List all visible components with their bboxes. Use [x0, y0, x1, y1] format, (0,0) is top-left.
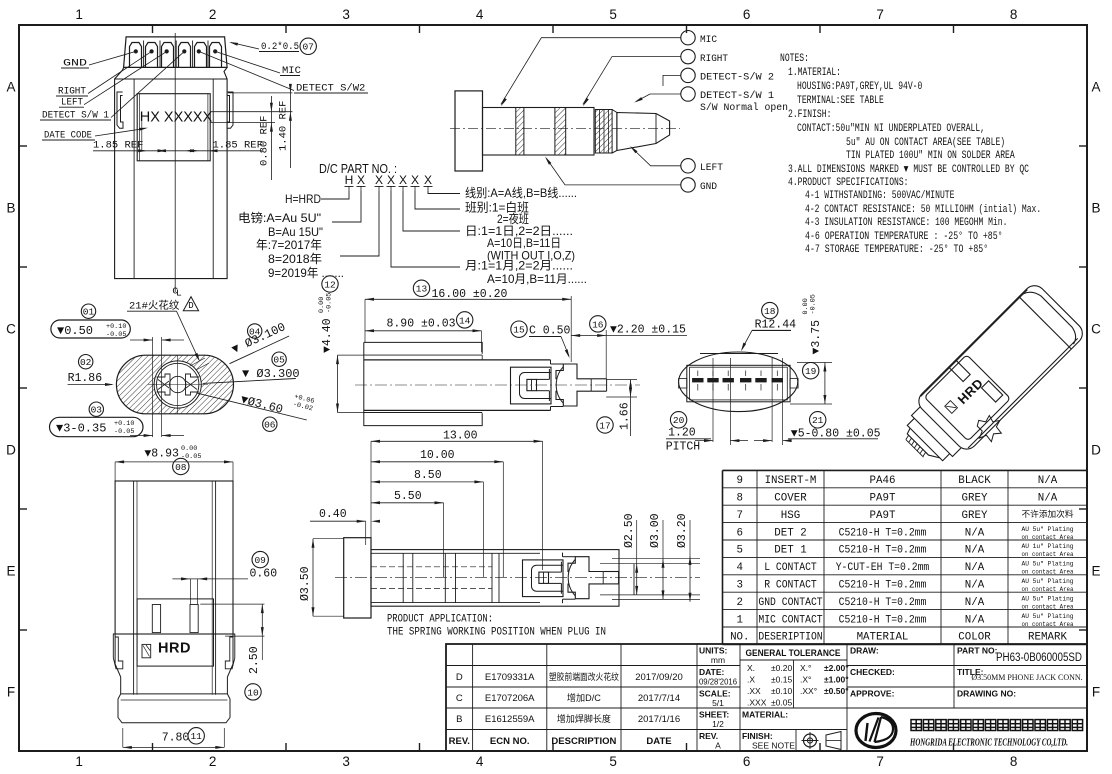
svg-text:20: 20 [673, 415, 685, 426]
3d view small square mark [945, 401, 958, 414]
spring jaw arc [556, 367, 563, 404]
tolerance box left border [739, 644, 741, 751]
svg-text:PRODUCT APPLICATION:: PRODUCT APPLICATION: [387, 614, 493, 626]
svg-text:2017/1/16: 2017/1/16 [638, 714, 680, 725]
spring outer clamp box [511, 367, 552, 404]
svg-text:1.20: 1.20 [668, 427, 696, 440]
spring cross bar [568, 557, 604, 572]
svg-text:B: B [456, 714, 462, 725]
svg-text:A=10月,B=11月......: A=10月,B=11月...... [487, 272, 587, 286]
dim dia 2.50 [636, 564, 638, 595]
svg-text:10: 10 [247, 687, 259, 698]
balloon 11 [188, 728, 204, 744]
svg-text:1: 1 [75, 754, 83, 769]
leader X3 to month label [391, 191, 460, 267]
oval crosshair lines [177, 355, 179, 414]
top view centerline [174, 33, 176, 292]
svg-text:.X°: .X° [800, 675, 811, 685]
svg-text:TERMINAL:SEE TABLE: TERMINAL:SEE TABLE [797, 95, 884, 107]
svg-text:C: C [456, 693, 463, 704]
svg-text:+0.10: +0.10 [106, 323, 126, 331]
svg-text:0.00: 0.00 [181, 445, 197, 453]
svg-text:1.85 REF: 1.85 REF [93, 140, 143, 152]
svg-text:HX XXXXX: HX XXXXX [140, 110, 213, 126]
svg-text:E: E [1091, 564, 1100, 579]
svg-text:X: X [357, 173, 365, 187]
ellipse side notches [679, 379, 687, 389]
svg-text:8: 8 [1010, 7, 1018, 22]
leader DETECT S/W 1 [111, 51, 184, 117]
3d view body slab [895, 281, 1087, 473]
svg-text:2017/09/20: 2017/09/20 [635, 672, 683, 683]
general tolerance box [740, 659, 847, 661]
svg-text:A: A [715, 741, 721, 751]
svg-text:R CONTACT: R CONTACT [764, 580, 817, 592]
dimension 1.66 vertical line [630, 380, 632, 437]
svg-text:4-3 INSULATION RESISTANCE: 100: 4-3 INSULATION RESISTANCE: 100 MEGOHM Mi… [805, 217, 1007, 229]
svg-text:5/1: 5/1 [712, 698, 724, 708]
svg-text:±1.00°: ±1.00° [824, 675, 849, 685]
svg-text:on contact Area: on contact Area [1022, 551, 1074, 558]
svg-text:电镑:A=Au 5U": 电镑:A=Au 5U" [238, 210, 321, 225]
svg-text:±0.10: ±0.10 [771, 686, 792, 696]
front view dim 0.60 line and arrows [172, 578, 248, 580]
svg-text:X: X [424, 173, 432, 187]
spring cross bar [556, 364, 592, 379]
svg-text:on contact Area: on contact Area [1022, 569, 1074, 576]
svg-text:NO.: NO. [730, 632, 749, 644]
svg-text:REV.: REV. [699, 731, 718, 741]
dimension 2.20 line [571, 335, 687, 337]
svg-text:N/A: N/A [965, 545, 985, 557]
svg-text:FINISH:: FINISH: [742, 731, 773, 741]
svg-text:AU 5u" Plating: AU 5u" Plating [1022, 595, 1074, 602]
svg-text:3: 3 [737, 580, 743, 592]
dimension 1.40 REF vertical [289, 85, 291, 168]
svg-text:Y-CUT-EH T=0.2mm: Y-CUT-EH T=0.2mm [836, 562, 930, 574]
label dia 3.100 slanted with leader [230, 336, 290, 364]
svg-text:09/28'2016: 09/28'2016 [699, 677, 737, 687]
dim dia 3.20 [689, 556, 691, 602]
svg-text:F: F [1092, 685, 1100, 700]
svg-text:DRAW:: DRAW: [850, 646, 879, 656]
svg-text:8.90 ±0.03: 8.90 ±0.03 [387, 318, 456, 331]
svg-text:C: C [6, 322, 16, 337]
oval hatch detail dashes inside circle [190, 358, 205, 366]
balloon 18 [762, 302, 778, 318]
svg-text:PH63-0B060005SD: PH63-0B060005SD [996, 652, 1082, 664]
svg-text:13: 13 [416, 284, 428, 295]
callout circle RIGHT [681, 49, 695, 63]
svg-text:UNITS:: UNITS: [699, 646, 728, 656]
svg-text:Ø2.50: Ø2.50 [623, 513, 636, 548]
svg-text:D: D [188, 301, 193, 311]
svg-text:12: 12 [324, 279, 336, 290]
leader H to H=HRD [321, 191, 349, 199]
svg-text:DATE: DATE [646, 736, 671, 747]
bottom view dia ext lines [600, 563, 700, 565]
leader 0.2*0.5 arrow to pin block corner [231, 43, 259, 50]
svg-text:09: 09 [254, 555, 266, 566]
svg-text:1: 1 [75, 7, 83, 22]
dimension 8.90 line [365, 330, 482, 332]
oval left contact part [157, 374, 171, 395]
svg-text:1: 1 [737, 614, 743, 626]
svg-text:AU 5u" Plating: AU 5u" Plating [1022, 526, 1074, 533]
svg-text:DET 2: DET 2 [774, 527, 806, 539]
oval inner circle 2 [157, 363, 199, 405]
svg-text:-0.05: -0.05 [325, 293, 333, 313]
balloon 03 [89, 402, 103, 416]
svg-text:15: 15 [513, 325, 525, 336]
svg-text:06: 06 [264, 420, 276, 431]
balloon 16 [590, 316, 606, 332]
svg-text:4.PRODUCT SPECIFICATIONS:: 4.PRODUCT SPECIFICATIONS: [788, 177, 909, 189]
svg-text:X: X [375, 173, 383, 187]
svg-text:11: 11 [190, 731, 202, 742]
svg-text:INSERT-M: INSERT-M [765, 475, 817, 487]
plug cone tip [617, 113, 670, 151]
svg-text:9: 9 [737, 475, 743, 487]
leader from spark label to oval hatch [177, 311, 200, 360]
balloon 13 [413, 280, 429, 296]
top view pin block separator lines [143, 41, 145, 68]
svg-text:16: 16 [592, 319, 604, 330]
svg-text:19: 19 [805, 366, 817, 377]
dimension 1.20 arrows [704, 439, 713, 442]
front view dim 2.50 ext lines [200, 603, 264, 605]
svg-text:GENERAL TOLERANCE: GENERAL TOLERANCE [746, 648, 841, 658]
svg-text:F: F [7, 685, 15, 700]
svg-text:5.50: 5.50 [394, 490, 422, 503]
svg-text:07: 07 [302, 42, 313, 53]
svg-text:GND: GND [700, 181, 717, 193]
svg-text:C 0.50: C 0.50 [529, 325, 571, 338]
dimension 0.80 arrows [763, 439, 772, 442]
extension lines for HX box dims [141, 122, 143, 151]
bottom view sleeve boundary verticals [491, 553, 493, 602]
callout box 0.50 with tolerance [51, 320, 130, 338]
leader MIC top [215, 51, 280, 73]
svg-text:X.°: X.° [800, 663, 811, 673]
svg-text:AU 5u" Plating: AU 5u" Plating [1022, 578, 1074, 585]
svg-text:N/A: N/A [965, 614, 985, 626]
leader GND [89, 51, 136, 65]
svg-text:01: 01 [83, 307, 95, 318]
svg-text:AU 5u" Plating: AU 5u" Plating [1022, 613, 1074, 620]
projection symbol cone [826, 732, 841, 750]
revision table grid [446, 665, 740, 667]
top view body outline [115, 67, 228, 278]
svg-text:MATERIAL:: MATERIAL: [742, 710, 788, 720]
leader RIGHT [88, 51, 152, 93]
company logo [856, 714, 896, 748]
oval right contact part [186, 374, 200, 395]
svg-text:N/A: N/A [965, 527, 985, 539]
svg-text:4-2 CONTACT RESISTANCE: 50 MIL: 4-2 CONTACT RESISTANCE: 50 MILLIOHM (int… [805, 204, 1041, 216]
svg-text:C5210-H T=0.2mm: C5210-H T=0.2mm [839, 614, 927, 626]
svg-text:03: 03 [91, 405, 103, 416]
svg-text:18: 18 [764, 306, 776, 317]
ellipse pin whisker lines long [712, 358, 714, 442]
code underline ticks [345, 186, 354, 188]
svg-text:3.ALL DIMENSIONS MARKED ▼ MUST: 3.ALL DIMENSIONS MARKED ▼ MUST BE CONTRO… [788, 164, 1029, 176]
svg-text:HOUSING:PA9T,GREY,UL 94V-0: HOUSING:PA9T,GREY,UL 94V-0 [797, 81, 922, 93]
svg-text:D: D [1091, 443, 1101, 458]
leader DETECT-S/W 1 to cone [636, 94, 681, 102]
callout box 3-0.35 with tolerance [50, 417, 144, 436]
svg-text:B: B [6, 201, 15, 216]
front view right hook ear [225, 634, 235, 669]
leader MIC to plug [501, 38, 681, 105]
dimension line 1.85 REF spans [93, 150, 262, 152]
front view body lower outline [115, 634, 233, 694]
svg-text:X.: X. [747, 663, 755, 673]
callout circle DETECT-S/W 2 [681, 68, 695, 82]
leader RIGHT to plug [583, 57, 681, 105]
3d view clip wing [970, 410, 1007, 447]
oval stadium hatched body [116, 355, 233, 414]
balloon 08 [173, 458, 189, 474]
svg-text:E1612559A: E1612559A [485, 714, 535, 725]
svg-text:RIGHT: RIGHT [700, 53, 728, 65]
svg-text:X: X [399, 173, 407, 187]
svg-text:on contact Area: on contact Area [1022, 621, 1074, 628]
svg-text:5u" AU ON CONTACT AREA(SEE TAB: 5u" AU ON CONTACT AREA(SEE TABLE) [846, 137, 1005, 149]
svg-text:B: B [1091, 201, 1100, 216]
leader GND to plug body [547, 159, 681, 185]
balloon 20 [670, 412, 686, 428]
spring inner U channel [520, 373, 552, 399]
balloon 15 [511, 321, 527, 337]
leader elbow DETECT-S/W 2 [663, 75, 681, 86]
svg-text:7: 7 [876, 7, 884, 22]
svg-text:NOTES:: NOTES: [780, 53, 809, 65]
leader X1 to plating label [332, 191, 361, 222]
plug insulator band 2 hatched [555, 108, 566, 156]
svg-text:CONTACT:50u"MIN NI UNDERPLATED: CONTACT:50u"MIN NI UNDERPLATED OVERALL, [797, 123, 985, 135]
3d view HRD logo text [955, 375, 987, 407]
middle view centerline [355, 384, 640, 386]
svg-text:2.FINISH:: 2.FINISH: [788, 109, 831, 121]
svg-text:8: 8 [1010, 754, 1018, 769]
spring pin lines to wishbone [549, 571, 562, 573]
balloon 19 [803, 363, 819, 379]
finish row [740, 729, 847, 731]
top view solder dots [134, 50, 138, 54]
balloon 04 [248, 324, 262, 338]
3d view serration teeth [905, 435, 927, 457]
svg-text:on contact Area: on contact Area [1022, 534, 1074, 541]
svg-text:6: 6 [737, 527, 743, 539]
leader DETECT S/W2 [199, 51, 294, 90]
svg-text:E1707206A: E1707206A [485, 693, 535, 704]
svg-text:-0.05: -0.05 [114, 428, 134, 436]
svg-text:REV.: REV. [449, 736, 470, 747]
svg-text:1.66: 1.66 [619, 402, 632, 430]
svg-text:▼0.50: ▼0.50 [57, 324, 93, 338]
balloon 06 [263, 417, 277, 431]
svg-text:MIC CONTACT: MIC CONTACT [758, 614, 823, 626]
svg-text:-0.05: -0.05 [106, 331, 126, 339]
svg-text:DESCRIPTION: DESCRIPTION [551, 736, 616, 747]
front view left hook ear [113, 634, 123, 669]
title block outer [446, 644, 1087, 751]
svg-text:5: 5 [609, 7, 617, 22]
balloon 21 [810, 412, 826, 428]
spring step to body top [550, 360, 552, 364]
svg-text:±0.20: ±0.20 [771, 663, 792, 673]
svg-text:on contact Area: on contact Area [1022, 603, 1074, 610]
svg-text:增加焊脚长度: 增加焊脚长度 [557, 713, 611, 724]
svg-text:SHEET:: SHEET: [699, 710, 729, 720]
svg-text:L: L [176, 288, 182, 299]
svg-text:R1.86: R1.86 [68, 372, 103, 385]
svg-text:4: 4 [476, 7, 484, 22]
balloon 05 [272, 352, 286, 366]
top view right ear latch [227, 92, 233, 128]
spring step to body top [562, 553, 564, 557]
svg-text:▼4.40: ▼4.40 [321, 318, 334, 353]
svg-text:.XX: .XX [747, 686, 761, 696]
callout circle DETECT-S/W 1 [681, 87, 695, 101]
balloon 14 [457, 312, 473, 328]
svg-text:A: A [6, 80, 15, 95]
top view body shoulder line [115, 78, 228, 80]
front view small hatched square [142, 644, 151, 657]
ellipse inner rectangle [687, 365, 790, 402]
svg-text:PA46: PA46 [870, 475, 896, 487]
svg-text:B=Au 15U": B=Au 15U" [268, 225, 323, 239]
spring pin lines to wishbone [537, 378, 550, 380]
svg-text:APPROVE:: APPROVE: [850, 689, 895, 699]
svg-text:±0.05: ±0.05 [771, 698, 792, 708]
balloon 12 [322, 276, 338, 292]
svg-text:▼3.75: ▼3.75 [810, 320, 823, 355]
triangle D flag [183, 297, 198, 311]
svg-text:R12.44: R12.44 [755, 319, 797, 332]
front view slot left [152, 605, 160, 633]
leader R12.44 arrow to ellipse top [742, 330, 752, 349]
oval vertical extension lines for dims [152, 337, 154, 437]
svg-text:02: 02 [80, 357, 92, 368]
spring outer clamp box [523, 560, 564, 597]
callout circle GND [681, 178, 695, 192]
svg-text:CHECKED:: CHECKED: [850, 667, 895, 677]
units scale sheet column [697, 665, 740, 667]
front view dim 7.80 line [123, 746, 225, 748]
bottom view hidden dashed lines [371, 566, 492, 568]
svg-text:线别:A=A线,B=B线......: 线别:A=A线,B=B线...... [465, 186, 577, 200]
svg-text:8.50: 8.50 [414, 469, 442, 482]
zone column ticks top and bottom [152, 25, 154, 33]
svg-text:HSG: HSG [781, 510, 800, 522]
leader LEFT to cone [632, 148, 681, 166]
svg-text:Ø3.20: Ø3.20 [676, 513, 689, 548]
svg-text:E: E [6, 564, 15, 579]
material row [740, 707, 847, 709]
plug pin bar [592, 378, 607, 380]
svg-text:.XX°: .XX° [800, 686, 817, 696]
svg-text:mm: mm [711, 655, 725, 665]
svg-text:PA9T: PA9T [870, 510, 896, 522]
svg-text:4-6 OPERATION TEMPERATURE : -2: 4-6 OPERATION TEMPERATURE : -25° TO +85° [805, 231, 1003, 243]
svg-text:BLACK: BLACK [958, 475, 991, 487]
svg-text:2: 2 [737, 597, 743, 609]
svg-text:GND CONTACT: GND CONTACT [758, 597, 823, 609]
ellipse top flat line [700, 353, 778, 355]
top view pin block trapezoid [124, 37, 228, 68]
svg-text:21: 21 [812, 415, 824, 426]
leader LEFT [84, 51, 167, 104]
spring jaw arc [568, 559, 575, 596]
svg-text:▼ Ø3.300: ▼ Ø3.300 [242, 367, 300, 381]
svg-text:8=2018年: 8=2018年 [268, 252, 322, 266]
svg-text:7.80: 7.80 [162, 732, 190, 745]
bottom view right end lines [633, 564, 635, 595]
plug pin bar [604, 571, 619, 573]
svg-text:10.00: 10.00 [420, 449, 455, 462]
bottom view body top second line [371, 552, 540, 554]
svg-text:PART NO:: PART NO: [957, 646, 998, 656]
svg-text:Ø3.50: Ø3.50 [299, 566, 312, 601]
svg-text:X: X [387, 173, 395, 187]
front view bottom flange [118, 694, 230, 723]
zone row ticks left and right [19, 145, 27, 147]
svg-text:17: 17 [599, 420, 610, 431]
svg-text:C5210-H T=0.2mm: C5210-H T=0.2mm [839, 597, 927, 609]
svg-text:Ø3.50MM PHONE JACK CONN.: Ø3.50MM PHONE JACK CONN. [971, 673, 1082, 682]
svg-text:.X: .X [747, 675, 755, 685]
svg-text:7: 7 [737, 510, 743, 522]
svg-text:1.MATERIAL:: 1.MATERIAL: [788, 67, 841, 79]
svg-text:4-7 STORAGE TEMPERATURE: -25°: 4-7 STORAGE TEMPERATURE: -25° TO +85° [805, 244, 988, 256]
svg-text:年:7=2017年: 年:7=2017年 [256, 238, 322, 252]
svg-text:5: 5 [609, 754, 617, 769]
svg-text:HONGRIDA ELECTRONIC TECHNOLOGY: HONGRIDA ELECTRONIC TECHNOLOGY CO,LTD. [909, 737, 1068, 749]
oval center small circle [170, 376, 186, 392]
leader X4 to day label [403, 191, 460, 231]
callout circle LEFT [681, 159, 695, 173]
svg-text:+0.10: +0.10 [114, 420, 134, 428]
svg-text:E1709331A: E1709331A [485, 672, 535, 683]
svg-text:不许添加次料: 不许添加次料 [1022, 509, 1074, 520]
oval top dim arrows 0.50 [144, 339, 153, 342]
svg-text:4: 4 [476, 754, 484, 769]
svg-text:3: 3 [342, 754, 350, 769]
ellipse pin contacts [693, 378, 704, 382]
svg-text:HRD: HRD [158, 641, 191, 657]
leader X2 to year label [340, 191, 379, 256]
oval inner circle white [154, 361, 201, 408]
svg-text:N/A: N/A [1038, 475, 1058, 487]
svg-text:C: C [1091, 322, 1101, 337]
svg-text:05: 05 [273, 355, 285, 366]
svg-text:AU 1u" Plating: AU 1u" Plating [1022, 543, 1074, 550]
svg-text:N/A: N/A [1038, 493, 1058, 505]
svg-text:D: D [456, 672, 463, 683]
svg-text:2.50: 2.50 [248, 646, 261, 674]
bottom view flange [344, 538, 371, 618]
svg-text:增加D/C: 增加D/C [567, 692, 602, 703]
svg-text:COVER: COVER [774, 493, 807, 505]
front view inner face box [137, 599, 213, 666]
leader X6 to line label [428, 191, 460, 194]
svg-text:REMARK: REMARK [1028, 632, 1067, 644]
front view dim 8.93 line [115, 461, 233, 463]
svg-text:2: 2 [209, 7, 217, 22]
leader X5 to shift label [415, 191, 460, 209]
